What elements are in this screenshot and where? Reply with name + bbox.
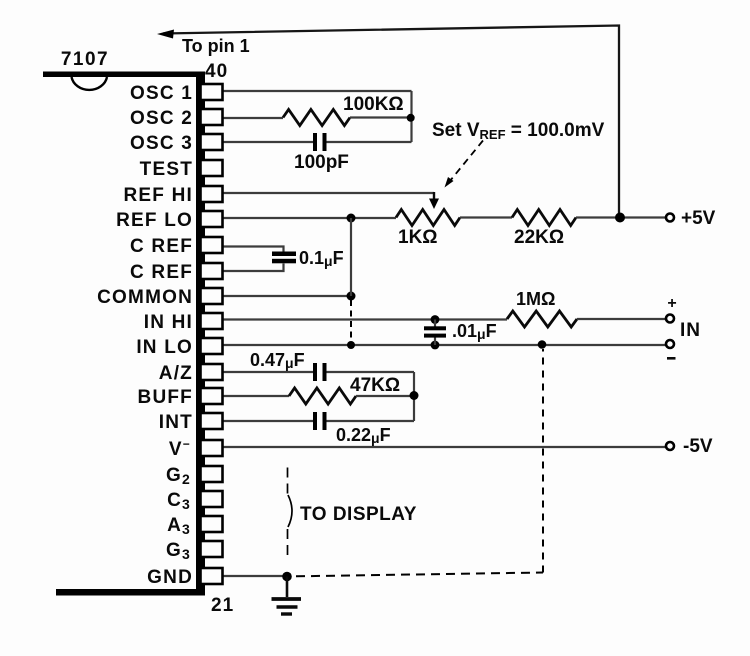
svg-text:+: + [667, 295, 676, 312]
svg-text:REF HI: REF HI [124, 185, 193, 206]
svg-text:-5V: -5V [683, 436, 713, 457]
svg-text:OSC 2: OSC 2 [130, 108, 193, 129]
svg-text:0.47μF: 0.47μF [250, 350, 305, 371]
svg-text:GND: GND [147, 567, 193, 588]
svg-text:TO DISPLAY: TO DISPLAY [300, 504, 417, 525]
svg-text:47KΩ: 47KΩ [350, 375, 400, 396]
svg-text:Set VREF = 100.0mV: Set VREF = 100.0mV [432, 120, 605, 142]
svg-text:21: 21 [211, 595, 234, 616]
svg-text:0.22μF: 0.22μF [336, 425, 391, 446]
svg-text:IN HI: IN HI [144, 312, 193, 333]
svg-text:0.1μF: 0.1μF [299, 248, 344, 269]
svg-text:.01μF: .01μF [452, 321, 497, 342]
svg-text:A/Z: A/Z [159, 363, 193, 384]
svg-text:1KΩ: 1KΩ [398, 227, 438, 248]
svg-text:40: 40 [205, 61, 228, 82]
svg-text:COMMON: COMMON [97, 287, 193, 308]
svg-text:IN: IN [680, 320, 701, 341]
svg-text:100pF: 100pF [294, 152, 349, 173]
svg-text:IN LO: IN LO [136, 337, 193, 358]
svg-text:7107: 7107 [61, 49, 109, 70]
svg-text:C REF: C REF [130, 262, 193, 283]
svg-text:To pin 1: To pin 1 [182, 36, 250, 56]
svg-text:100KΩ: 100KΩ [343, 94, 404, 115]
svg-text:1MΩ: 1MΩ [516, 289, 555, 309]
svg-text:INT: INT [159, 412, 193, 433]
svg-text:OSC 3: OSC 3 [130, 133, 193, 154]
svg-text:TEST: TEST [140, 159, 193, 180]
svg-text:REF LO: REF LO [116, 210, 193, 231]
svg-text:+5V: +5V [681, 208, 716, 229]
svg-text:22KΩ: 22KΩ [514, 227, 564, 248]
svg-text:BUFF: BUFF [138, 387, 193, 408]
svg-text:C REF: C REF [130, 236, 193, 257]
svg-text:OSC 1: OSC 1 [130, 83, 193, 104]
